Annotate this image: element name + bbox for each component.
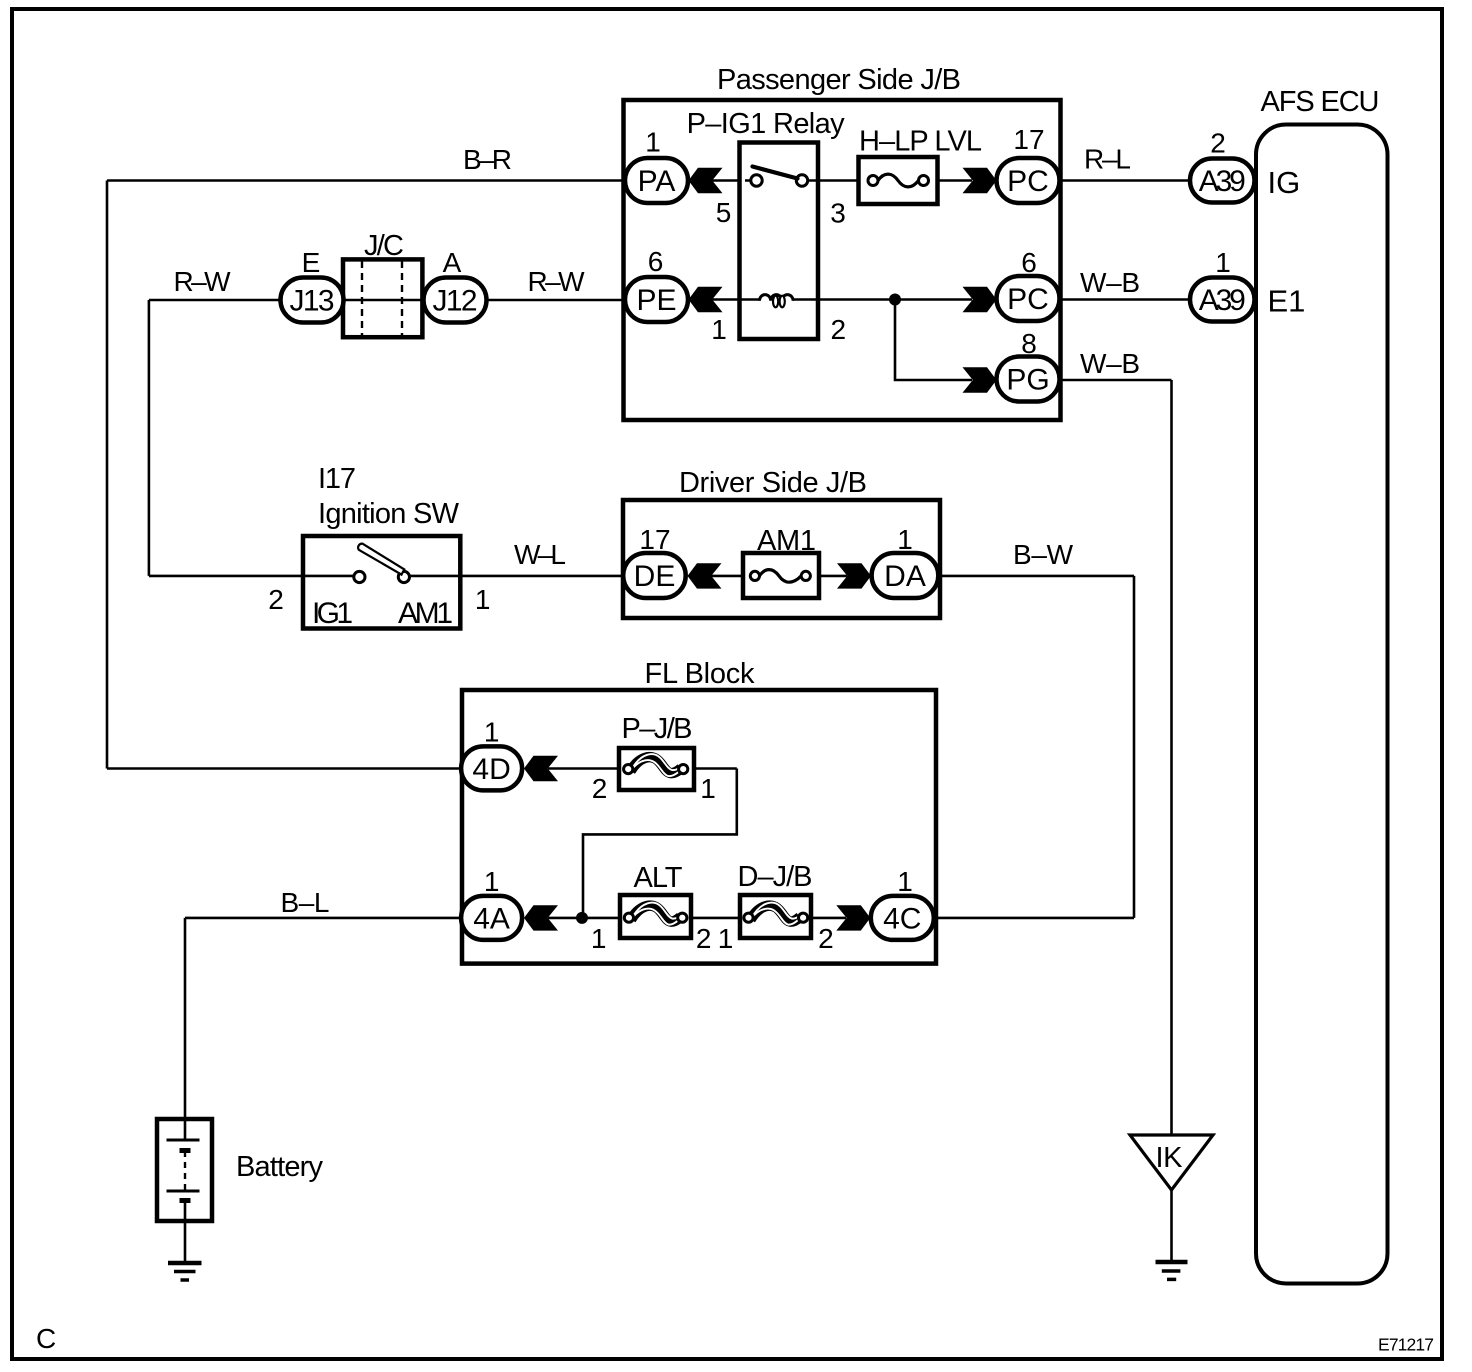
svg-text:IG1: IG1 [312,597,353,630]
svg-text:W–B: W–B [1080,267,1140,298]
svg-text:Passenger Side J/B: Passenger Side J/B [717,64,961,96]
svg-text:IK: IK [1156,1142,1184,1174]
svg-text:Driver Side J/B: Driver Side J/B [679,467,867,499]
svg-text:DA: DA [884,560,926,593]
svg-text:2: 2 [1210,128,1226,159]
svg-text:I17: I17 [318,463,356,495]
svg-text:4D: 4D [472,753,510,786]
svg-text:R–W: R–W [528,266,586,297]
svg-text:2: 2 [268,584,284,615]
svg-text:1: 1 [1215,247,1231,278]
svg-text:PC: PC [1007,165,1049,198]
svg-text:6: 6 [648,246,664,277]
svg-text:ALT: ALT [634,862,683,894]
svg-text:D–J/B: D–J/B [738,861,813,893]
svg-text:4A: 4A [473,903,510,936]
svg-text:A: A [443,247,462,278]
svg-text:1: 1 [484,717,500,748]
svg-text:IG: IG [1268,165,1301,200]
svg-text:1: 1 [897,524,913,555]
svg-text:1: 1 [484,866,500,897]
svg-text:R–W: R–W [174,266,232,297]
svg-text:AM1: AM1 [398,597,453,630]
svg-text:H–LP LVL: H–LP LVL [859,126,982,158]
svg-text:J/C: J/C [364,230,404,262]
svg-text:1: 1 [700,773,716,804]
svg-text:W–L: W–L [514,539,566,570]
svg-text:AM1: AM1 [757,525,816,557]
svg-text:2: 2 [696,923,712,954]
svg-text:4C: 4C [883,903,921,936]
svg-text:DE: DE [634,560,676,593]
svg-text:R–L: R–L [1084,144,1131,175]
svg-text:1: 1 [645,127,661,158]
svg-text:PE: PE [636,284,676,317]
svg-text:1: 1 [897,866,913,897]
svg-text:AFS ECU: AFS ECU [1261,86,1380,118]
svg-text:1: 1 [591,923,607,954]
svg-text:1: 1 [711,314,727,345]
svg-text:E: E [302,247,321,278]
svg-text:17: 17 [1013,124,1044,155]
svg-text:3: 3 [830,198,846,229]
svg-text:P–J/B: P–J/B [622,713,693,745]
svg-text:C: C [36,1323,56,1354]
svg-text:J13: J13 [290,285,335,318]
svg-text:PG: PG [1006,364,1049,397]
svg-text:A39: A39 [1199,284,1246,317]
svg-text:2: 2 [818,923,834,954]
svg-text:6: 6 [1021,247,1037,278]
svg-text:J12: J12 [433,285,478,318]
svg-text:FL Block: FL Block [645,658,756,690]
svg-text:B–W: B–W [1013,539,1074,570]
svg-text:Battery: Battery [236,1151,324,1183]
svg-text:PC: PC [1007,283,1049,316]
svg-text:8: 8 [1021,328,1037,359]
svg-text:B–R: B–R [463,144,512,175]
svg-text:P–IG1 Relay: P–IG1 Relay [687,108,846,140]
svg-text:1: 1 [475,584,491,615]
svg-text:E71217: E71217 [1378,1335,1434,1355]
svg-text:1: 1 [718,923,734,954]
svg-text:PA: PA [638,165,676,198]
svg-text:17: 17 [639,524,670,555]
svg-text:E1: E1 [1268,284,1306,319]
svg-text:A39: A39 [1199,165,1246,198]
svg-text:Ignition SW: Ignition SW [318,498,460,530]
svg-text:2: 2 [592,773,608,804]
svg-text:W–B: W–B [1080,348,1140,379]
svg-text:B–L: B–L [281,887,330,918]
svg-text:5: 5 [716,197,732,228]
svg-text:2: 2 [831,314,847,345]
